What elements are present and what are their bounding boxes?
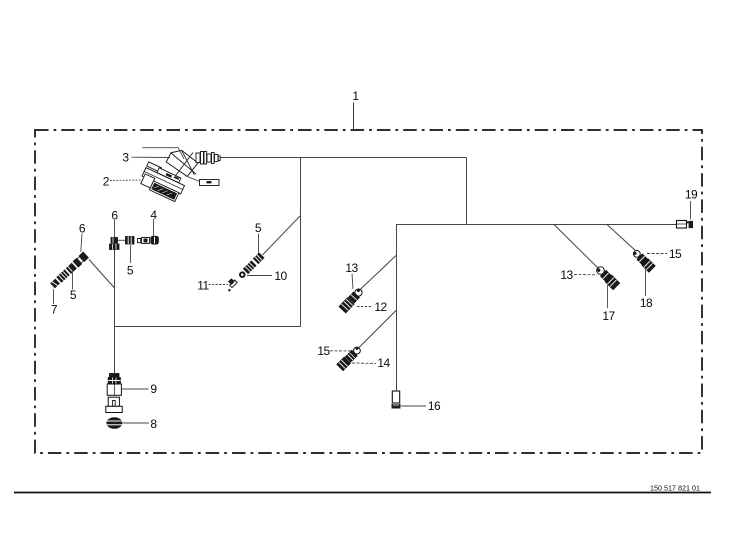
left chain connectors (items 7,5,6) (50, 252, 89, 289)
wire: diagonal to connector 15/18 (607, 225, 637, 253)
svg-text:10: 10 (274, 269, 287, 283)
svg-text:1: 1 (352, 89, 359, 103)
label 18 leader (645, 268, 647, 296)
connector 2 (multi-pin plug housing, rotated stack) (138, 162, 187, 203)
clip item 11 (228, 278, 237, 291)
svg-text:12: 12 (374, 300, 387, 314)
label 5 leader (middle) (258, 234, 260, 254)
connector 12 with ring 13 (left middle) (339, 287, 364, 313)
label 13 leader (right) (574, 274, 597, 276)
label 15 leader (left) (330, 350, 352, 352)
wire: lower horizontal of left loop (115, 326, 301, 328)
terminator item 16 (392, 391, 401, 409)
label 16 leader (401, 405, 426, 407)
label 8 leader (123, 422, 149, 424)
label 17 leader (607, 285, 609, 308)
svg-text:4: 4 (150, 208, 157, 222)
svg-text:6: 6 (79, 222, 86, 236)
wire: right branch horizontal to item 19 (396, 224, 677, 226)
connector 18 with ring 15 (right) (631, 248, 655, 272)
screw item 4 (hex head) (151, 236, 159, 244)
label 3 leader (132, 156, 171, 158)
label 2 leader (110, 179, 142, 182)
small washer and pin before screw 4 (138, 238, 150, 244)
svg-text:16: 16 (428, 399, 441, 413)
svg-text:150 517 821 01: 150 517 821 01 (650, 483, 700, 492)
middle chain connector (items 10,5) (237, 252, 264, 279)
wire: diagonal to connector 13/17 (554, 225, 600, 271)
svg-text:13: 13 (560, 268, 573, 282)
connector 2 boot (angled strain relief) (166, 150, 198, 176)
wire: center vertical down to item 16 (396, 225, 398, 392)
svg-text:5: 5 (70, 288, 77, 302)
sensor item 9 (vertical stack on left wire) (106, 374, 122, 413)
connector 2 top cable line (142, 148, 184, 159)
label 1 leader (353, 103, 355, 131)
wire: diagonal to connector 12/13 (356, 256, 396, 294)
connector item 19 (flat plug at right border) (677, 221, 694, 229)
svg-text:7: 7 (51, 303, 58, 317)
svg-text:15: 15 (669, 247, 682, 261)
svg-text:2: 2 (103, 174, 110, 188)
svg-text:13: 13 (345, 261, 358, 275)
connector 17 with ring 13 (right) (595, 265, 620, 290)
label 14 leader (352, 362, 376, 365)
label 19 leader (690, 201, 692, 220)
wire: main trunk horizontal from plug 3 (217, 157, 467, 159)
wire: left drop vertical (300, 158, 302, 327)
svg-text:18: 18 (640, 296, 653, 310)
svg-text:5: 5 (255, 221, 262, 235)
wire: diagonal to left chain connector 6 (89, 260, 115, 289)
footer rule (14, 492, 711, 494)
cable tie item near connector 2 (187, 176, 219, 185)
wire: diagonal to middle connector 5 (263, 216, 301, 255)
svg-text:17: 17 (602, 309, 615, 323)
svg-text:9: 9 (150, 382, 157, 396)
label 15 leader (right) (647, 253, 667, 255)
plug 3 (round connector with ribs) (196, 152, 220, 165)
harness boundary border (item 1 outline) (35, 130, 702, 453)
svg-text:5: 5 (127, 263, 134, 277)
svg-text:15: 15 (317, 344, 330, 358)
label 5 leader (left chain) (72, 271, 74, 290)
wire: left vertical down to item 9 (114, 247, 116, 373)
wire: diagonal to connector 14/15 (359, 311, 396, 348)
label 6 leader (left chain) (81, 234, 82, 253)
label 12 leader (357, 306, 372, 308)
label 10 leader (247, 275, 272, 277)
svg-text:3: 3 (122, 150, 129, 164)
label 6 leader (mid) (114, 220, 116, 237)
label 5 leader (mid chain) (130, 245, 132, 263)
svg-text:6: 6 (111, 209, 118, 223)
label 7 leader (53, 289, 55, 304)
connector 5 (mid chain) (126, 237, 135, 245)
svg-text:14: 14 (377, 356, 390, 370)
label 9 leader (121, 388, 149, 390)
svg-text:11: 11 (197, 279, 209, 293)
cap item 8 (dark oval) (106, 417, 122, 429)
elbow connector 6 (mid, top of left vertical wire) (110, 238, 120, 250)
connector 14 with ring 15 (left lower) (337, 345, 363, 371)
label 13 leader (left) (352, 274, 353, 290)
svg-text:19: 19 (685, 188, 698, 202)
label 11 leader (209, 284, 229, 286)
svg-text:8: 8 (150, 417, 157, 431)
wire: right drop vertical (466, 158, 468, 225)
label 4 leader (153, 219, 155, 236)
wire: short horizontal between 6 and 5 (mid chain) (118, 239, 127, 241)
